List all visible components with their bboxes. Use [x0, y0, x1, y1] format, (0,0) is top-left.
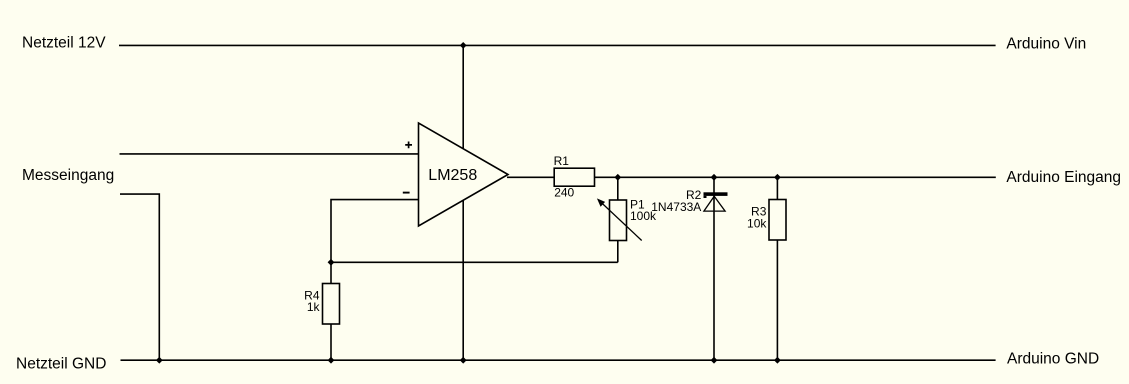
zener diode R2 cathode bar — [704, 192, 728, 196]
wire Messeingang to op-amp + input — [120, 153, 419, 155]
wire op-amp output — [507, 176, 554, 178]
junction zener R2 / GND rail — [711, 357, 718, 364]
op-amp + pin marker — [405, 142, 412, 149]
wire R3 bottom to GND rail — [776, 240, 778, 360]
junction Eingang rail / zener R2 — [711, 174, 718, 181]
wire P1 bottom to feedback — [617, 241, 619, 263]
resistor R1 body — [554, 168, 594, 186]
wire Messeingang lower stub — [120, 194, 159, 360]
wire R1 to Arduino Eingang — [595, 176, 996, 178]
resistor R4 top wire — [330, 262, 332, 283]
potentiometer P1 body — [610, 200, 627, 241]
junction top rail / op-amp supply — [460, 42, 467, 49]
junction Eingang rail / R3 — [774, 174, 781, 181]
svg-text:Netzteil 12V: Netzteil 12V — [22, 34, 106, 51]
wire zener R2 vertical — [713, 177, 715, 360]
wire op-amp - input — [331, 200, 419, 263]
wire op-amp supply vertical lower segment — [462, 200, 464, 360]
op-amp U1 LM258 triangle — [419, 123, 509, 226]
wire feedback horizontal — [331, 261, 618, 263]
op-amp - pin marker — [403, 192, 410, 194]
svg-text:Arduino Vin: Arduino Vin — [1006, 35, 1086, 52]
wire GND rail — [121, 359, 996, 361]
wire R4 bottom to GND rail — [330, 324, 332, 360]
junction R4 / GND rail — [328, 357, 335, 364]
potentiometer P1 wiper arrow — [600, 201, 642, 241]
wire 12V top rail — [119, 44, 996, 46]
zener diode R2 triangle — [704, 196, 725, 211]
junction Messeingang stub / GND rail — [156, 357, 163, 364]
svg-text:LM258: LM258 — [428, 167, 477, 184]
resistor R3 body — [769, 200, 786, 241]
resistor R4 body — [323, 284, 340, 325]
junction op-amp supply / GND rail — [460, 357, 467, 364]
svg-text:10k: 10k — [747, 216, 767, 230]
svg-text:R1: R1 — [554, 154, 570, 168]
svg-text:240: 240 — [554, 185, 574, 199]
junction output / P1 — [614, 174, 621, 181]
wire P1 top — [617, 177, 619, 200]
wire R3 top — [776, 177, 778, 199]
junction R3 / GND rail — [774, 357, 781, 364]
svg-text:1k: 1k — [307, 300, 321, 314]
svg-text:Arduino Eingang: Arduino Eingang — [1006, 169, 1121, 186]
svg-text:Messeingang: Messeingang — [22, 167, 114, 184]
wire op-amp supply vertical upper segment — [462, 45, 464, 148]
svg-text:1N4733A: 1N4733A — [651, 200, 701, 214]
svg-text:Netzteil GND: Netzteil GND — [16, 356, 106, 373]
svg-text:Arduino GND: Arduino GND — [1007, 351, 1099, 368]
junction feedback / R4 — [328, 259, 335, 266]
